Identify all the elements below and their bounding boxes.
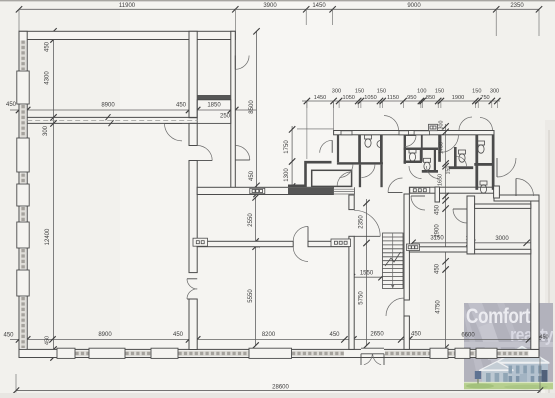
- partition between cells E and F: [420, 148, 422, 164]
- door cell D to main corridor: [388, 178, 403, 193]
- svg-text:3000: 3000: [495, 236, 509, 242]
- sanitary partition x381: [380, 135, 383, 165]
- porch stepped thick wall: [288, 162, 332, 186]
- hall right wall upper part b: [189, 161, 197, 273]
- svg-text:850: 850: [426, 95, 435, 101]
- window bottom wall 4: [249, 348, 292, 358]
- svg-text:1850: 1850: [207, 103, 221, 109]
- svg-text:150: 150: [472, 89, 481, 95]
- staircase: [383, 233, 404, 289]
- window left wall 4: [17, 222, 29, 248]
- middle sub-dimension line of sanitary block: [302, 100, 500, 102]
- window bottom wall 7: [455, 348, 470, 358]
- beam opening tick marks: [106, 114, 111, 120]
- svg-text:150: 150: [446, 166, 452, 175]
- right vertical dimension line 8500-450: [256, 31, 258, 194]
- svg-text:9000: 9000: [407, 3, 421, 9]
- duct niche below room 1850: [197, 100, 231, 124]
- svg-text:6600: 6600: [461, 333, 475, 339]
- staircase centre line with arrow: [392, 233, 394, 289]
- cell E bottom wall: [404, 161, 422, 164]
- svg-text:1050: 1050: [364, 95, 376, 101]
- door hall top opening: [165, 123, 183, 140]
- svg-text:150: 150: [355, 89, 364, 95]
- entry steps: [333, 188, 354, 190]
- window left wall 3: [17, 184, 29, 206]
- kitchen counter symbol right: [407, 244, 420, 251]
- svg-text:5550: 5550: [248, 289, 254, 303]
- door room 2900: [411, 196, 425, 210]
- svg-text:300: 300: [490, 89, 499, 95]
- door corridor top: [354, 210, 380, 236]
- sink in cell C: [377, 141, 381, 148]
- interior wall between room 8900 and room 1850: [189, 31, 197, 117]
- vestibule door arc: [337, 172, 352, 187]
- hall right wall upper part a: [189, 123, 197, 145]
- svg-text:4300: 4300: [45, 71, 51, 85]
- window left wall 1: [17, 71, 29, 104]
- interior wall bottom of room 1850: [197, 95, 231, 100]
- svg-text:1550: 1550: [360, 271, 374, 277]
- svg-text:1750: 1750: [284, 140, 290, 154]
- window in sanitary top wall 3: [414, 131, 429, 135]
- svg-text:450: 450: [249, 170, 255, 181]
- exterior wall bottom: [19, 349, 539, 357]
- wall below room 2900: [409, 247, 467, 252]
- upper-left horizontal dimension line 450-8900-450-1850-250: [10, 109, 257, 111]
- svg-text:1450: 1450: [314, 95, 326, 101]
- wall stub x437: [435, 187, 440, 202]
- window bottom wall 6: [430, 348, 448, 358]
- exterior wall top of left block: [19, 31, 235, 39]
- door hall wall to side room: [197, 146, 212, 161]
- exterior door arc above cell D: [384, 116, 399, 131]
- svg-text:300: 300: [332, 89, 341, 95]
- svg-text:8900: 8900: [98, 332, 112, 338]
- svg-text:450: 450: [173, 332, 184, 338]
- svg-text:450: 450: [6, 102, 17, 108]
- corridor vertical dimension 2350-5750: [366, 199, 368, 346]
- window in sanitary top wall 2: [399, 131, 408, 135]
- exterior wall right: [531, 196, 539, 349]
- sanitary partition x476: [475, 135, 478, 190]
- svg-text:950: 950: [407, 95, 416, 101]
- svg-text:1150: 1150: [387, 95, 399, 101]
- svg-text:1650: 1650: [438, 174, 444, 186]
- wall below room 3000: [467, 249, 531, 254]
- wall below wc room in 1900 cell: [449, 166, 473, 169]
- door right section 1: [497, 158, 516, 177]
- kitchen counter symbol left: [193, 238, 208, 246]
- door cell B to lower corridor: [340, 164, 354, 178]
- svg-text:100: 100: [417, 89, 426, 95]
- top wall of right section: [494, 195, 539, 201]
- beam dashed centre line: [27, 119, 197, 121]
- window left wall 2: [17, 138, 29, 172]
- door into cell E: [405, 136, 416, 147]
- wall dividing 750 cell: [474, 163, 494, 166]
- door vestibule upper room: [320, 140, 333, 153]
- logo bush lamp: [475, 371, 481, 379]
- sanitary partition x439: [438, 135, 441, 162]
- svg-text:5750: 5750: [359, 291, 365, 305]
- door right section 2: [516, 179, 534, 197]
- svg-text:150: 150: [435, 89, 444, 95]
- cell F right wall: [434, 150, 436, 171]
- bottom wall hatch: [76, 351, 89, 357]
- scanner top edge: [0, 0, 555, 2]
- horizontal wall band right of corridor: [409, 187, 494, 193]
- svg-text:8900: 8900: [101, 103, 115, 109]
- wall left of room 3000: [467, 196, 475, 254]
- logo watermark background: [464, 303, 553, 389]
- porch vertical dimension 1750-1300: [291, 126, 293, 190]
- sanitary partition x339: [337, 135, 339, 162]
- sanitary block top wall: [334, 131, 494, 135]
- window bottom wall 8: [476, 348, 497, 358]
- svg-text:1050: 1050: [342, 95, 354, 101]
- right extension of overall dim: [539, 358, 541, 393]
- svg-text:750: 750: [480, 95, 489, 101]
- window in sanitary top wall 1: [341, 131, 352, 135]
- sanitary cells bottom wall left: [337, 162, 383, 164]
- left wall hatch: [20, 41, 26, 71]
- corridor left wall upper: [349, 195, 354, 210]
- svg-text:8500: 8500: [249, 100, 255, 114]
- sanitary cells mid wall y148: [404, 148, 438, 151]
- sanitary partition x359: [358, 135, 361, 165]
- svg-text:450: 450: [435, 204, 441, 215]
- kitchen counter symbol middle: [331, 239, 351, 247]
- svg-text:11900: 11900: [119, 3, 136, 9]
- sanitary partition x421: [421, 135, 423, 162]
- svg-text:250: 250: [220, 114, 231, 120]
- svg-text:1450: 1450: [312, 3, 326, 9]
- window bottom wall 2: [89, 348, 125, 358]
- svg-text:2650: 2650: [370, 332, 384, 338]
- svg-text:2550: 2550: [248, 213, 254, 227]
- door in left block right wall lower: [235, 146, 250, 161]
- scanner right shadow: [545, 120, 555, 393]
- right rooms horizontal dimension 3150-150-3000: [412, 242, 531, 244]
- double door hall right wall: [187, 279, 197, 289]
- wall stub in 1900 cell: [454, 147, 457, 167]
- svg-text:2350: 2350: [359, 215, 365, 229]
- door wc-cell in 1900 room: [457, 156, 467, 166]
- radiator symbol on wall band: [250, 188, 265, 193]
- svg-text:300: 300: [43, 125, 49, 136]
- corridor horizontal dimension 1550: [351, 276, 383, 278]
- beam wall between top room and hall - top line: [27, 116, 197, 118]
- exterior door arc above 1900 cell: [459, 117, 472, 130]
- window left wall 5: [17, 270, 29, 296]
- left dimension line: [53, 31, 55, 357]
- svg-text:450: 450: [329, 332, 340, 338]
- svg-text:450: 450: [411, 332, 422, 338]
- toilet wc 1: [365, 135, 372, 147]
- doors of cells E and F to lower corridor: [409, 166, 422, 179]
- svg-text:8200: 8200: [262, 332, 276, 338]
- sanitary partition x492: [492, 135, 495, 190]
- svg-text:150: 150: [377, 89, 386, 95]
- svg-text:450: 450: [3, 333, 14, 339]
- toilet wc 4: [424, 158, 431, 170]
- kitchen partition right segment: [308, 241, 349, 246]
- logo lawn: [464, 382, 553, 389]
- door room 3000: [453, 209, 467, 223]
- kitchen vertical dimension 2550-150-5550: [255, 197, 257, 346]
- svg-text:450: 450: [435, 263, 441, 274]
- kitchen partition wall: [197, 241, 293, 246]
- svg-text:1900: 1900: [452, 95, 464, 101]
- svg-text:450: 450: [176, 103, 187, 109]
- door kitchen partition upper leaf: [293, 227, 308, 242]
- room 3000 top wall: [475, 204, 531, 208]
- vestibule room outline: [312, 170, 352, 186]
- sanitary inner dim 300-1750-150-1650: [445, 124, 447, 196]
- toilet wc 3: [409, 149, 416, 161]
- radiator on band below cell E: [410, 188, 430, 194]
- beam wall between top room and hall - bottom line: [27, 122, 197, 124]
- hall right wall lower part: [189, 299, 197, 350]
- svg-text:300: 300: [439, 121, 445, 130]
- sanitary partition x404: [404, 135, 406, 164]
- door sanitary 1900 room: [441, 135, 459, 153]
- svg-text:450: 450: [45, 41, 51, 52]
- exterior wall right edge of left block: [231, 31, 236, 189]
- svg-text:1300: 1300: [284, 168, 290, 182]
- wall stub x496: [494, 186, 500, 198]
- cell F bottom wall: [422, 170, 438, 173]
- lower corridor partitions: [359, 165, 361, 188]
- door corridor bottom right: [386, 298, 404, 316]
- svg-text:12400: 12400: [45, 228, 51, 245]
- top dim extension lines: [18, 9, 20, 31]
- logo light rays: [468, 303, 516, 389]
- corridor right wall lower: [404, 316, 409, 349]
- logo house illustration: [479, 347, 550, 387]
- door top small room to right: [235, 56, 249, 70]
- svg-text:3150: 3150: [430, 236, 444, 242]
- right rooms vertical dimension 450-2900-450-4750: [445, 196, 447, 348]
- top dimension line: [19, 8, 539, 10]
- door kitchen partition lower leaf: [293, 247, 308, 262]
- bottom overall dimension line 28600: [16, 390, 540, 392]
- corridor left wall lower: [349, 236, 354, 349]
- window bottom wall 1: [57, 348, 75, 358]
- svg-text:3900: 3900: [263, 3, 277, 9]
- svg-text:28600: 28600: [272, 385, 289, 391]
- toilet wc 5: [459, 150, 466, 162]
- horizontal wall band from hall to porch: [197, 187, 333, 194]
- exterior door arc above 750 cell: [480, 118, 493, 131]
- svg-text:4750: 4750: [436, 300, 442, 314]
- window bottom wall 3: [151, 348, 178, 358]
- staircase break line: [385, 252, 401, 266]
- vent symbol above sanitary wall: [429, 124, 438, 130]
- bottom interior dimension line: [10, 338, 541, 340]
- svg-text:450: 450: [540, 335, 549, 341]
- svg-text:450: 450: [45, 336, 51, 345]
- porch band dark fill: [288, 188, 333, 194]
- toilet wc 6: [478, 141, 485, 153]
- toilet wc 7: [480, 181, 487, 193]
- svg-text:2350: 2350: [510, 3, 524, 9]
- porch dim extension line: [297, 128, 334, 130]
- door cell C to lower corridor: [362, 164, 376, 178]
- exterior double door bottom wall: [361, 348, 384, 354]
- exterior wall left: [19, 31, 27, 357]
- corridor right wall upper: [404, 194, 409, 300]
